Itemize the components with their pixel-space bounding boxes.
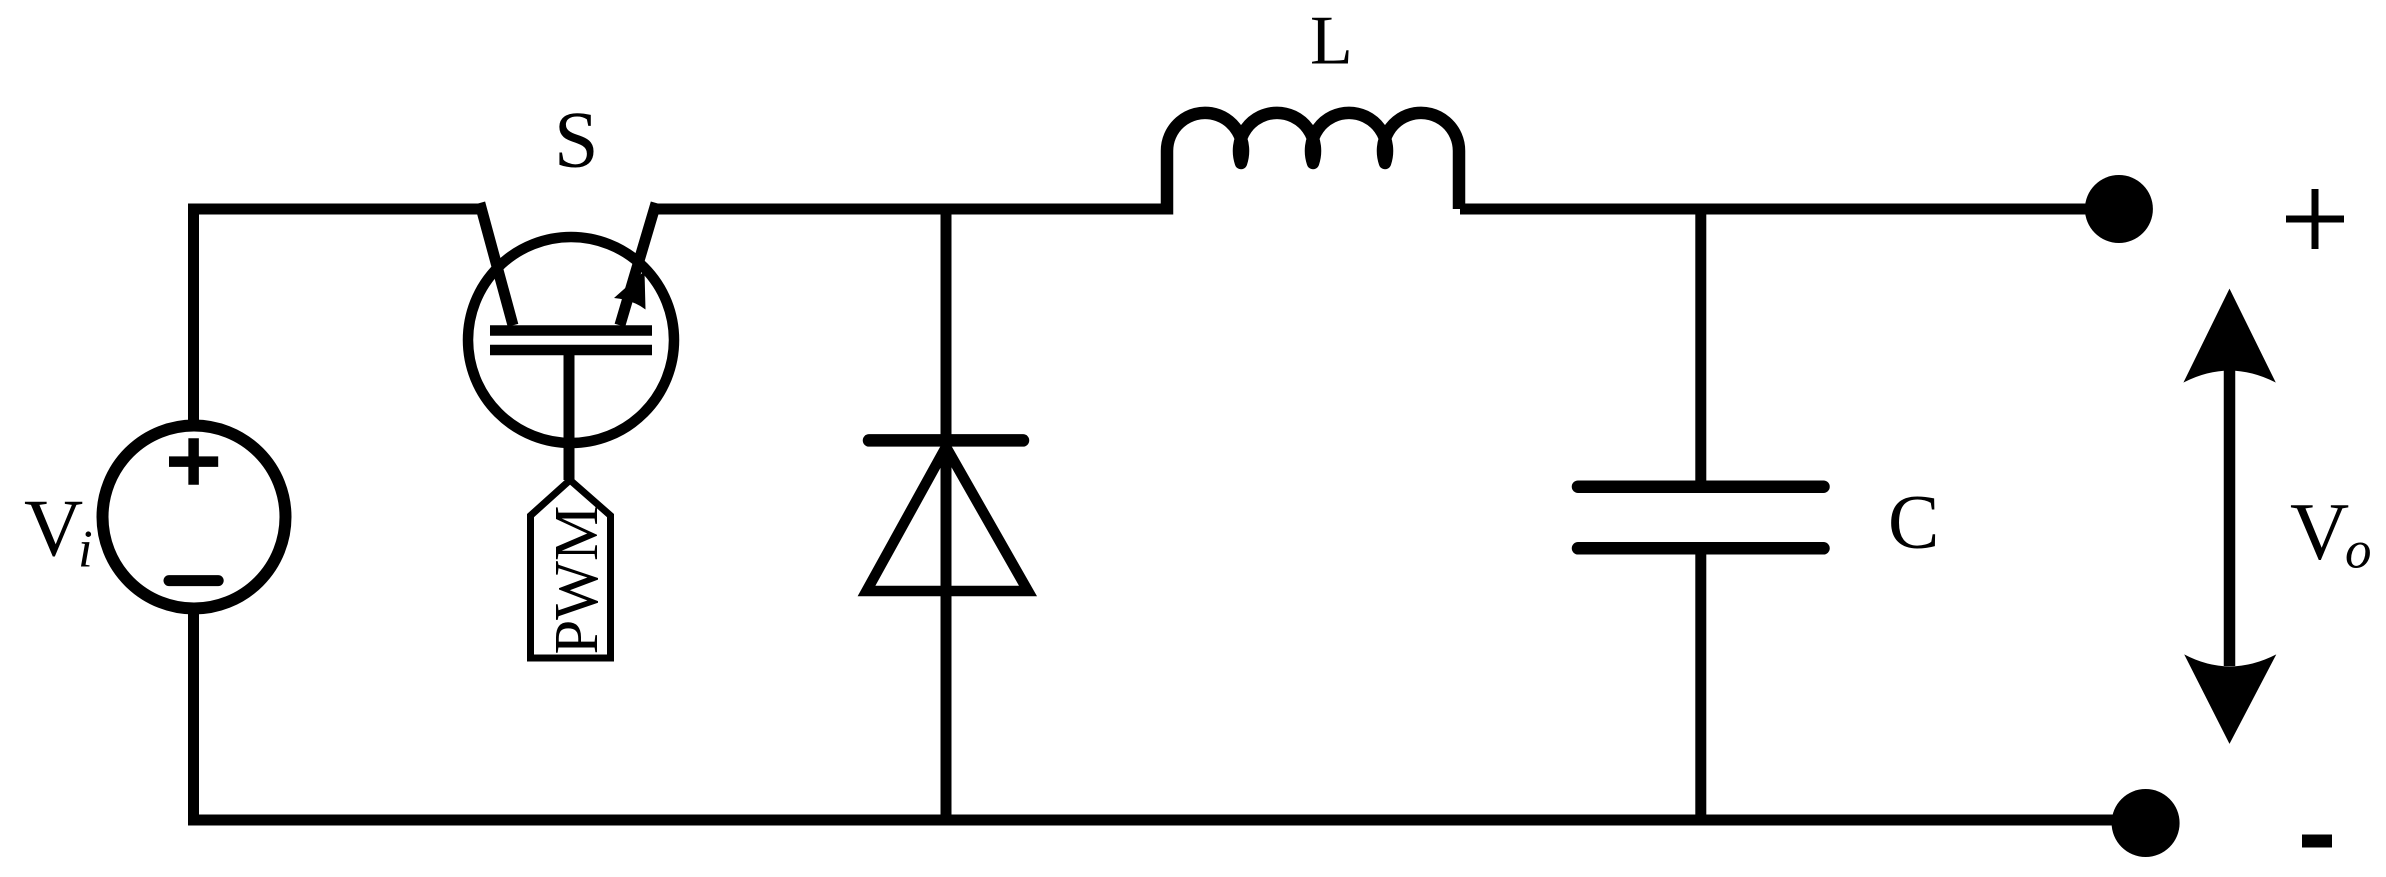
wire diode branch [941,209,952,820]
diode cathode bar [869,434,1023,447]
Vo arrow upper head [2183,289,2275,383]
transistor gate stem wire [564,350,575,480]
capacitor lower plate [1578,542,1824,555]
voltage source Vi circle [103,426,286,609]
label L [1310,3,1353,80]
wire left branch lower [188,608,199,826]
voltage source plus sign [169,438,218,485]
voltage source minus sign [169,575,218,586]
transistor S circle [468,237,674,443]
svg-text:L: L [1310,3,1353,80]
output terminal dot + [2085,175,2153,243]
transistor left lead (collector) [480,203,513,325]
wire top rail right segment (inductor to + terminal) [1460,204,2090,215]
svg-text:S: S [554,97,599,185]
transistor emitter arrowhead [614,271,646,310]
svg-text:V: V [24,483,83,574]
inductor L coil [1167,113,1459,215]
wire capacitor upper lead [1695,209,1706,487]
label S [554,97,599,185]
label PWM [541,506,611,655]
svg-text:PWM: PWM [541,506,611,655]
wire bottom rail [194,815,2119,826]
capacitor upper plate [1578,480,1824,493]
label Vi [24,483,93,579]
wire top rail left segment [194,204,485,215]
transistor right lead (emitter) [620,203,656,325]
Vo arrow shaft [2224,368,2236,666]
svg-text:V: V [2290,486,2349,577]
wire top rail middle segment (transistor to inductor) [655,204,1166,215]
label Vo [2290,486,2372,579]
Vo arrow lower head [2184,654,2276,744]
PWM flag pentagon [531,480,611,658]
svg-text:C: C [1888,479,1939,565]
label C [1888,479,1939,565]
wire capacitor lower lead [1695,548,1706,820]
label - (output) [2302,835,2332,848]
svg-text:i: i [78,520,93,578]
wire left branch upper [188,204,199,427]
diode triangle [867,447,1029,591]
output terminal dot - [2112,789,2180,857]
transistor lower bar (gate) [490,345,652,356]
svg-text:o: o [2345,521,2372,579]
transistor upper bar [490,325,652,336]
label + (output) [2286,189,2344,249]
